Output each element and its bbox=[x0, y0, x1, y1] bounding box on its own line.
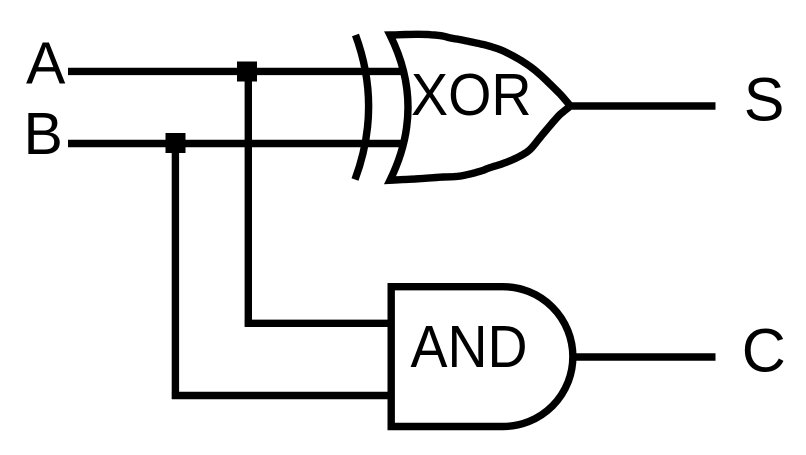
node junction on B line bbox=[166, 133, 186, 153]
wire input A to XOR pin 1 bbox=[68, 68, 403, 75]
svg-text:S: S bbox=[744, 65, 785, 133]
svg-text:XOR: XOR bbox=[411, 62, 532, 128]
node junction on A line bbox=[237, 62, 257, 82]
svg-text:AND: AND bbox=[411, 314, 528, 380]
wire B junction down (vertical) bbox=[172, 143, 179, 399]
XOR gate U1 body bbox=[390, 34, 570, 180]
wire XOR output to S bbox=[566, 102, 716, 109]
wire input B to XOR pin 2 bbox=[68, 140, 403, 147]
svg-text:C: C bbox=[742, 317, 786, 385]
wire to AND pin 1 (horizontal) bbox=[245, 320, 391, 327]
XOR gate U1 input arc bbox=[355, 35, 369, 180]
svg-text:A: A bbox=[26, 31, 66, 97]
wire to AND pin 2 (horizontal) bbox=[172, 392, 391, 399]
AND gate U2 body bbox=[391, 287, 573, 427]
wire AND output to C bbox=[573, 353, 716, 360]
wire A junction down (vertical) bbox=[245, 72, 252, 327]
svg-text:B: B bbox=[24, 101, 63, 167]
